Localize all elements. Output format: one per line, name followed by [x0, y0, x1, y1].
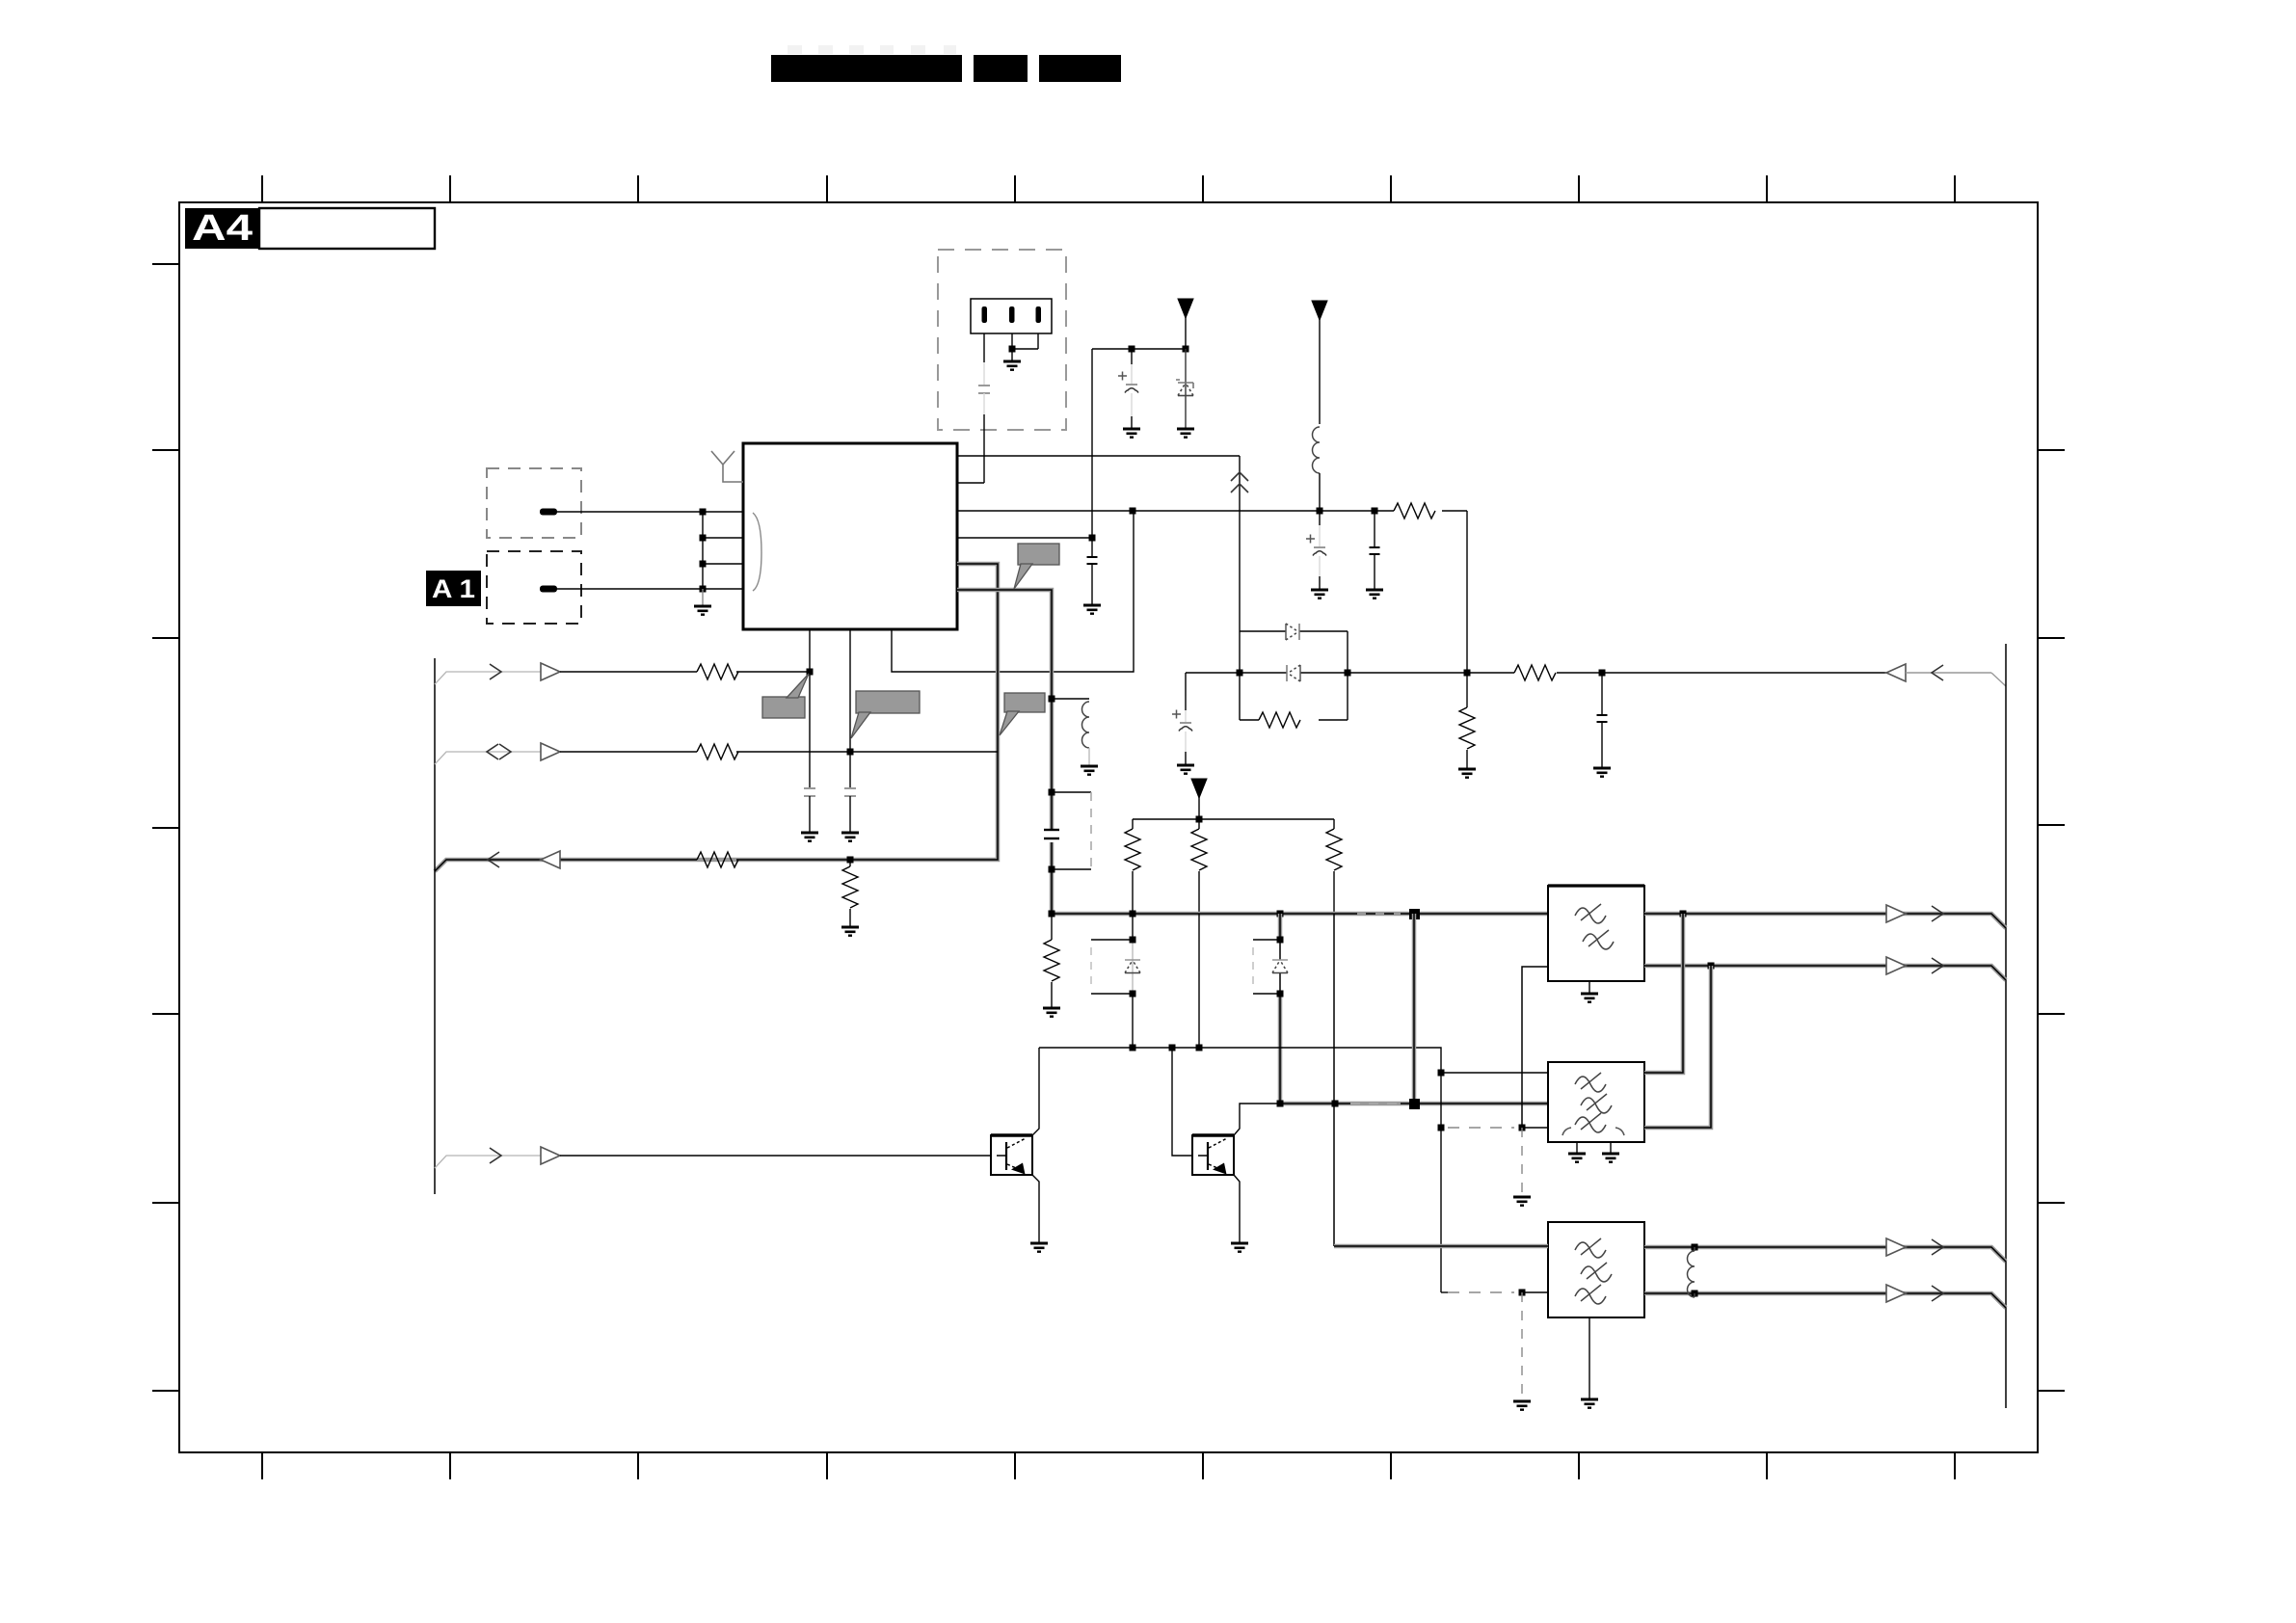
wire line2 (bus to thick path A): [435, 743, 998, 764]
connector J2 (dashed): [487, 551, 581, 624]
node C4 tap: [1372, 508, 1378, 515]
node IC pin / C8: [807, 669, 814, 676]
filter FL2: [1548, 1062, 1644, 1162]
node IC pin / C9: [847, 749, 854, 756]
node C7 tap: [1599, 670, 1606, 677]
node diode pair left: [1237, 670, 1243, 677]
ground (dashed) below FL3: [1513, 1292, 1531, 1410]
wire FL1 out2 to FL2 right (thick): [1644, 966, 1711, 1128]
inductor L1: [1313, 427, 1321, 511]
wire to R9: [1348, 672, 1886, 674]
resistor R4: [1125, 819, 1140, 914]
callout flag 3: [851, 691, 920, 738]
inductor L2: [1049, 696, 1099, 775]
wire riser x1244: [1198, 914, 1200, 1048]
redacted title bars: [771, 45, 1121, 82]
node R10 tap: [1464, 670, 1471, 677]
transistor Q2: [1192, 1104, 1280, 1252]
capacitor C3 (electrolytic): [1306, 511, 1328, 599]
wire J2 to IC: [557, 588, 703, 590]
power arrow P2: [1312, 301, 1327, 424]
wire line1 (bus to IC pin): [435, 663, 810, 684]
IC left pin bus: [703, 512, 743, 589]
thick signal path B (IC to RF bus): [957, 590, 1052, 914]
svg-text:A 1: A 1: [432, 574, 475, 603]
wire FL1 left wrap pin: [1522, 967, 1548, 1128]
wire line4 (bus to Q1 base): [435, 1147, 991, 1168]
antenna symbol: [711, 451, 743, 482]
callout flag 1: [1014, 544, 1059, 589]
resistor R12 (below bus): [1043, 914, 1060, 1017]
resistor R3 (on thick line): [697, 852, 738, 867]
filter FL3: [1548, 1222, 1644, 1408]
IC pin + capacitor C9: [841, 629, 859, 841]
callout flag 4: [762, 674, 809, 718]
connector J1 (dashed): [487, 468, 581, 538]
node diode pair right: [1345, 670, 1351, 677]
wire bus drop to IF link (thick): [1409, 914, 1420, 1109]
connector J3 (3-pin, dashed enclosure): [938, 250, 1066, 430]
resistor R2: [697, 744, 738, 759]
wire Q2 base: [1172, 1048, 1192, 1156]
node pins left: [700, 509, 707, 593]
wire FL3 output 2 (thick): [1644, 1285, 2006, 1308]
node R5 leg: [1196, 1045, 1203, 1051]
node L1 tap: [1317, 508, 1323, 515]
resistor R6: [1326, 819, 1342, 914]
power arrow P3: [1191, 779, 1207, 819]
wire FL2 lower-left pin (dashed link): [1438, 1073, 1549, 1292]
wire input from right bus: [1886, 664, 2006, 686]
ground left pin bus: [694, 589, 711, 615]
wire transistor collector line: [1039, 1048, 1441, 1073]
wire riser x1384 to filter 3: [1333, 914, 1335, 1246]
wire IC pin to C5: [957, 537, 1092, 539]
filter FL1: [1548, 886, 1644, 1002]
node A (supply rail): [1092, 349, 1186, 538]
capacitor C7: [1593, 673, 1611, 777]
sheet label A1: [426, 571, 481, 606]
resistor R11: [841, 860, 859, 936]
resistor R9: [1514, 665, 1556, 680]
crystal X1 (series cap + dashed body): [1044, 789, 1091, 873]
wire FL2 top-left pin: [1441, 1072, 1548, 1074]
IC pin + capacitor C8: [801, 629, 818, 841]
IC input bracket: [753, 513, 761, 591]
callout flag 2: [1000, 693, 1045, 735]
diode D2: [1286, 624, 1299, 640]
capacitor C1 (in J3 box): [978, 333, 990, 483]
capacitor C5: [1083, 538, 1101, 614]
resistor R7: [1394, 503, 1435, 519]
wire FL3 output 1 (thick): [1644, 1238, 2006, 1262]
wire J1 to IC: [557, 511, 703, 513]
resistor R5: [1191, 819, 1207, 914]
resistor R10: [1458, 673, 1476, 778]
thick signal path A (IC to left bus line): [435, 564, 998, 871]
wire FL1 output 1 (thick): [1644, 905, 2006, 928]
wire FL1 output 2 (thick): [1644, 957, 2006, 980]
diode D5 (with dashed option box, thick leg): [1253, 914, 1288, 1104]
wire IF link (thick, partly dashed): [1277, 1101, 1549, 1107]
wire J3 pin2/pin3: [1012, 333, 1038, 349]
wire IC pin to riser x1175: [892, 511, 1134, 672]
ground (dashed) below FL2: [1513, 1128, 1531, 1206]
right collector bus: [2005, 644, 2007, 1408]
RF bus (thick): [1052, 909, 1548, 919]
resistor R8: [1259, 712, 1300, 728]
arrows line3: [488, 852, 499, 867]
wire FL1 out1 to FL2 right (thick): [1644, 914, 1683, 1073]
diode pair D2/D3 block: [1240, 631, 1348, 720]
ground J3: [1003, 349, 1021, 370]
inductor L3 (between FL3 outputs): [1688, 1247, 1695, 1297]
wire IC pin to V-rail riser: [957, 455, 1240, 457]
capacitor C6 (electrolytic): [1172, 696, 1194, 774]
wire AGC line: [1186, 673, 1240, 696]
capacitor C4: [1366, 511, 1383, 599]
power arrow P1: [1178, 299, 1193, 349]
capacitor C2 (electrolytic): [1118, 349, 1140, 438]
wire IC supply pin: [957, 511, 1467, 673]
resistor R1: [697, 664, 738, 679]
wire riser with direction chevrons: [1231, 456, 1248, 631]
wire thick feed to FL3: [1334, 1244, 1548, 1249]
wire FL3 lower-left pin (dashed link): [1441, 1290, 1548, 1296]
node supply pin: [1130, 508, 1136, 515]
node D4 leg: [1130, 1045, 1136, 1051]
diode D4 (with dashed option box): [1091, 914, 1140, 1048]
supply rail to bias resistors: [1133, 818, 1334, 820]
diode D3: [1287, 665, 1300, 681]
node R11 tap: [847, 857, 854, 864]
op-amp U1 (main IC block): [743, 443, 957, 629]
left signal bus: [434, 658, 436, 1194]
sheet label A4: [185, 208, 435, 249]
wire C1 to IC pin: [957, 482, 984, 484]
transistor Q1: [991, 1048, 1048, 1252]
svg-text:A4: A4: [192, 208, 253, 249]
diode D1 (zener): [1176, 349, 1194, 438]
node Q2 base tap: [1169, 1045, 1176, 1051]
